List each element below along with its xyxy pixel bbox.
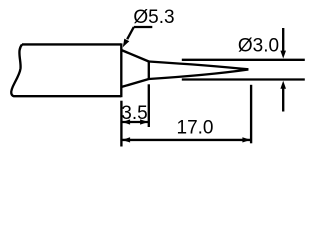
cone bottom edge xyxy=(121,79,149,87)
arrowhead up (Ø3.0 bottom) xyxy=(280,81,286,89)
svg-text:Ø3.0: Ø3.0 xyxy=(238,36,279,57)
dim line 3.5 xyxy=(122,121,148,123)
extension line mid (x=148.8) xyxy=(148,84,150,127)
svg-text:Ø5.3: Ø5.3 xyxy=(133,7,174,28)
needle top edge xyxy=(149,62,249,70)
cone top edge xyxy=(121,50,149,62)
arrowhead down (Ø3.0 top) xyxy=(280,51,286,59)
leader Ø5.3 diagonal xyxy=(127,27,134,39)
arrowhead 3.5 left xyxy=(122,119,130,124)
dim arrow down shaft xyxy=(282,28,284,52)
cone-needle junction line xyxy=(148,61,150,80)
extension line left (x=121.4) xyxy=(120,101,122,147)
needle bottom edge xyxy=(149,70,249,80)
shaft line top (Ø3.0) xyxy=(182,59,305,61)
body top edge xyxy=(22,43,121,45)
body right edge xyxy=(120,43,122,97)
arrowhead leader Ø5.3 xyxy=(123,39,130,48)
body bottom edge xyxy=(14,95,122,97)
arrowhead 17.0 left xyxy=(122,137,130,142)
shaft line bottom (Ø3.0) xyxy=(182,78,305,80)
svg-text:3.5: 3.5 xyxy=(121,103,147,124)
body break-line wavy left edge xyxy=(11,44,22,96)
extension line right (x=251.1) xyxy=(250,85,252,144)
dim line 17.0 xyxy=(122,139,251,141)
dim arrow up shaft xyxy=(282,88,284,112)
arrowhead 3.5 right xyxy=(140,119,148,124)
arrowhead 17.0 right xyxy=(242,137,250,142)
leader Ø5.3 shoulder xyxy=(134,26,153,28)
svg-text:17.0: 17.0 xyxy=(177,118,214,139)
